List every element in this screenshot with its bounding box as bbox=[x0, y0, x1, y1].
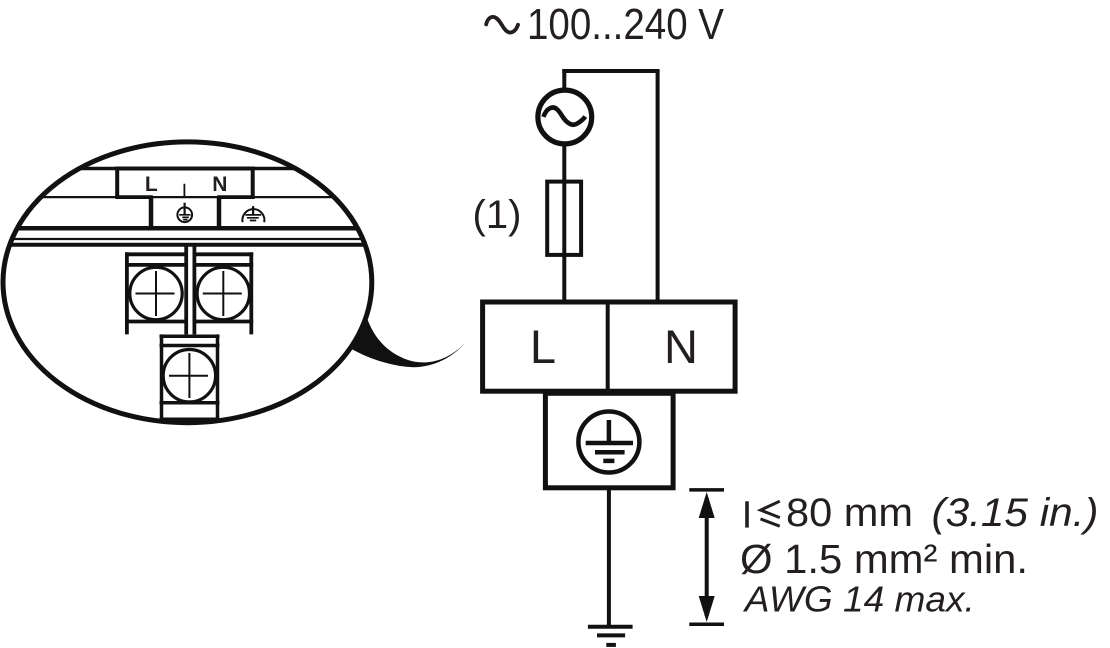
inset ellipse bbox=[3, 142, 372, 423]
svg-text:100...240 V: 100...240 V bbox=[527, 0, 725, 49]
svg-text:N: N bbox=[212, 173, 227, 196]
note line 1: l<=80mm (3.15 in.) bbox=[747, 491, 1099, 535]
inset bottom screw bbox=[163, 350, 215, 402]
inset right terminal block bbox=[193, 245, 254, 335]
inset PE circled earth bbox=[177, 203, 192, 222]
inset tick between L and N bbox=[183, 184, 185, 198]
terminal block L/N bbox=[483, 302, 735, 391]
svg-text:(1): (1) bbox=[473, 193, 522, 237]
svg-text:Ø 1.5 mm² min.: Ø 1.5 mm² min. bbox=[740, 536, 1028, 582]
PE terminal box bbox=[545, 393, 673, 488]
svg-text:N: N bbox=[664, 320, 698, 373]
inset chassis earth symbol bbox=[242, 206, 264, 222]
earth ground symbol bbox=[588, 627, 633, 645]
wire PE box to earth ground bbox=[607, 488, 611, 626]
inset sub-box right wall bbox=[217, 197, 222, 228]
callout tail bbox=[346, 310, 465, 367]
inset top chord bbox=[0, 167, 375, 171]
inset thin chord bbox=[0, 238, 375, 240]
svg-text:80 mm: 80 mm bbox=[786, 491, 913, 535]
inset L/N label box bbox=[115, 167, 255, 198]
inset sub-box left wall bbox=[149, 197, 154, 228]
inset chord B bbox=[0, 226, 375, 231]
inset right screw bbox=[197, 267, 249, 319]
inset left terminal block bbox=[125, 245, 188, 335]
inset chord under label box bbox=[0, 196, 375, 198]
supply label tilde bbox=[486, 17, 518, 33]
wire top bar bbox=[562, 69, 659, 73]
inset bottom terminal block bbox=[160, 334, 220, 420]
svg-text:AWG 14 max.: AWG 14 max. bbox=[743, 579, 975, 620]
AC source G1 bbox=[538, 90, 592, 144]
svg-text:L: L bbox=[145, 173, 158, 196]
fuse F1 bbox=[547, 182, 581, 255]
inset chord C bbox=[0, 243, 375, 247]
terminal divider bbox=[606, 302, 610, 391]
wire source to L terminal (through fuse) bbox=[562, 143, 566, 302]
wire right N drop bbox=[656, 71, 660, 302]
PE circled earth symbol bbox=[578, 412, 639, 473]
svg-text:(3.15 in.): (3.15 in.) bbox=[932, 491, 1099, 535]
wire top-left from source up bbox=[562, 69, 566, 91]
dimension arrow (cable length) bbox=[689, 490, 724, 624]
inset left screw bbox=[130, 267, 182, 319]
svg-text:L: L bbox=[530, 320, 556, 373]
